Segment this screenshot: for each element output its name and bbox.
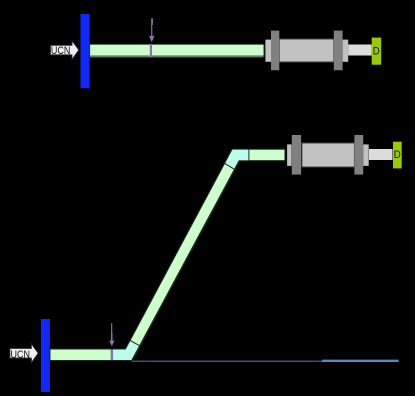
- detector assembly (bottom): body cylinder: [302, 143, 355, 167]
- guide joint line (top elbow / upper tube): [248, 149, 250, 161]
- foil position arrow (bottom, purple): [109, 323, 114, 346]
- elbow guide section (bottom, pale cyan): [113, 340, 140, 360]
- detector assembly (top): neck L: [265, 40, 271, 62]
- neutron guide tube (top, horizontal): [90, 44, 264, 56]
- detector snout tube (top): [348, 45, 372, 56]
- foil position arrow (top, purple): [149, 18, 154, 42]
- guide joint line (incline / top elbow): [225, 163, 235, 169]
- neutron guide pipe outline (bottom setup: horizontal + incline + upper horizontal): [50, 149, 285, 360]
- shutter / entrance window (blue bar, bottom): [41, 319, 50, 392]
- detector assembly (top): flange L: [271, 31, 279, 71]
- detector assembly (top): body cylinder: [279, 39, 334, 62]
- svg-text:D: D: [394, 149, 401, 161]
- guide joint line (bottom elbow / incline): [130, 340, 140, 345]
- shutter / entrance window (blue bar, top): [81, 14, 90, 88]
- UCN source arrow (bottom): [10, 344, 39, 363]
- detector snout tube (bottom): [369, 149, 393, 160]
- floor line (thicker blue segment): [322, 360, 398, 362]
- detector assembly (bottom): neck R: [363, 144, 369, 166]
- detector assembly (top): neck R: [343, 40, 349, 62]
- pipe outline re-stroke (bottom setup): [50, 149, 285, 360]
- detector D (bottom): [393, 142, 402, 169]
- detector assembly (top): flange R: [334, 31, 343, 71]
- detector assembly (bottom): flange R: [354, 135, 363, 175]
- svg-text:D: D: [373, 46, 380, 58]
- foil marker in guide (top): [150, 44, 152, 57]
- floor line (thin blue): [132, 360, 324, 362]
- svg-text:UCN: UCN: [11, 349, 31, 361]
- detector assembly (bottom): flange L: [292, 135, 301, 175]
- incline lower-right edge emphasis: [132, 161, 239, 361]
- foil marker in guide (bottom): [111, 349, 114, 361]
- faint under-edge line below top guide tube: [90, 56, 264, 58]
- detector D (top): [372, 38, 382, 65]
- svg-text:UCN: UCN: [51, 45, 71, 57]
- elbow guide section (top, pale cyan): [225, 149, 249, 169]
- UCN source arrow (top): [50, 40, 79, 59]
- detector assembly (bottom): neck L: [287, 144, 291, 166]
